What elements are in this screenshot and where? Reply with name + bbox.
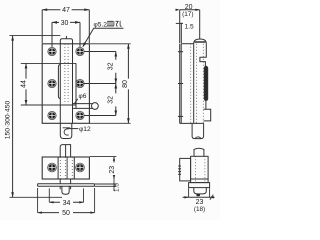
security stud pin horizontal [73, 104, 93, 109]
dim 30 ext right [79, 22, 81, 47]
knuckle dome cap [194, 39, 207, 44]
leaf socket piece [180, 158, 191, 181]
hidden shaft lines in block (dashed) [196, 156, 205, 182]
leader phi6 [75, 99, 78, 104]
arrows dim 80 [127, 44, 130, 49]
svg-text:47: 47 [62, 7, 70, 14]
arrows dim 34 [49, 201, 53, 203]
hidden pin left (dashed) [64, 157, 66, 179]
dim 47 ext right [88, 10, 90, 43]
dim 34 line [49, 201, 83, 203]
screw hole front top-left [48, 47, 56, 55]
dim 47 line [42, 9, 89, 11]
hidden barrel right (dashed) [71, 157, 73, 179]
right leaf wrap edge [75, 63, 77, 103]
oblique tick [210, 195, 213, 200]
arrow leader phi5.2 [83, 42, 87, 47]
svg-text:1.5: 1.5 [185, 23, 194, 30]
arrows dim 150 [11, 36, 14, 41]
dim 80 ext bottom [89, 122, 130, 124]
barrel below bar [60, 186, 70, 189]
hidden barrel left (dashed) [59, 157, 61, 179]
pin shaft [194, 148, 204, 156]
arrows dim 23 bottom view [113, 157, 115, 161]
leader phi12 [67, 128, 79, 130]
arrows dim 44 [25, 63, 28, 68]
stud collar [75, 104, 77, 109]
svg-text:44: 44 [20, 80, 27, 88]
svg-text:32: 32 [108, 96, 115, 104]
svg-text:150·300·450: 150·300·450 [4, 101, 11, 140]
stud ball end [92, 103, 99, 110]
knuckle barrel left edge [59, 44, 61, 124]
dim 20 line [180, 9, 200, 11]
pin top tick [65, 36, 67, 39]
dim 20 ext left / 1.5 ext [179, 10, 181, 43]
barrel bottom notch [195, 137, 201, 139]
arrows dim 30 [52, 21, 57, 24]
hidden leaf line (dashed) [190, 44, 192, 124]
screw hole front bot-left [48, 111, 56, 119]
dim 150 ext bottom [10, 196, 63, 198]
dim 50 ext right [94, 188, 96, 213]
svg-text:23: 23 [196, 199, 204, 206]
dim 23 line [113, 157, 115, 180]
dim 1.5 ext inner [180, 23, 182, 43]
other leaf thin bar [38, 184, 95, 186]
socket hatch ticks [178, 166, 181, 174]
wrap edge right [73, 157, 75, 179]
svg-text:(17): (17) [182, 11, 193, 18]
dim 80 ext top [89, 43, 130, 45]
screw hole A1 [0, 0, 1, 1]
svg-text:80: 80 [122, 80, 129, 88]
dim 30 ext left [51, 22, 53, 47]
slot left edge in plate [57, 157, 59, 179]
bottom view plate [42, 157, 89, 179]
dim 34 ext right [83, 188, 85, 202]
dim 30 line [52, 21, 80, 23]
hole tick row3 [178, 115, 183, 117]
barrel inner line above [65, 145, 67, 157]
dim 50 line [38, 212, 95, 214]
retaining ring detail [64, 129, 69, 135]
barrel above plate [60, 145, 70, 157]
svg-text:50: 50 [62, 210, 70, 217]
dim 80 line [127, 44, 129, 124]
dim 32 line [115, 52, 117, 116]
dim 50 ext left [37, 188, 39, 213]
knuckle bottom step [63, 127, 71, 129]
dim 20 ext right (center line) [199, 10, 201, 39]
arrows dim 32 [114, 52, 117, 57]
leader phi5.2 [83, 28, 124, 47]
dim 23p ext right [209, 188, 211, 197]
dim 44 ext top [21, 62, 76, 64]
dim 23 ext bottom arrowline [113, 179, 115, 191]
dim 23p ext left [188, 188, 190, 197]
barrel below plate [192, 123, 204, 138]
knuckle cap top [60, 39, 72, 44]
side top edge [181, 43, 194, 45]
leaf edge-on inner face [180, 44, 182, 124]
pin knob [194, 188, 207, 194]
hidden pin line right (dashed) [67, 44, 69, 103]
ticks dim 1.5 bottom view [113, 183, 116, 186]
knuckle barrel right edge [72, 44, 74, 124]
slot lower line [205, 101, 207, 110]
barrel left edge [193, 44, 195, 124]
dim 1.5b ext bottom [95, 185, 117, 187]
screw hole front mid-right [76, 79, 84, 87]
dome inner band [195, 41, 206, 43]
screw hole bottom-view right [76, 163, 85, 172]
pin body block [191, 156, 209, 182]
svg-text:20: 20 [185, 4, 193, 11]
pin flange [189, 183, 210, 188]
svg-text:34: 34 [63, 200, 71, 207]
arrows dim 23 pin [184, 196, 188, 198]
svg-text:φ12: φ12 [79, 126, 91, 133]
svg-text:φ6: φ6 [79, 93, 87, 100]
knuckle bottom below plate [60, 123, 72, 138]
barrel below plate to bar [60, 179, 70, 184]
dim 23 ext top [90, 156, 116, 158]
svg-text:(18): (18) [194, 206, 205, 213]
arrows dim 50 [38, 211, 42, 213]
hidden pin line left (dashed) [64, 44, 66, 103]
svg-text:30: 30 [61, 20, 69, 27]
screw hole front mid-left [48, 79, 56, 87]
leaf edge-on outer face [179, 44, 181, 124]
dim 150 ext top [10, 35, 61, 37]
screw hole bottom-view left [48, 163, 57, 172]
hole tick row1 [178, 51, 183, 53]
hidden pin hole right (dashed) [202, 44, 204, 124]
svg-text:32: 32 [108, 62, 115, 70]
dim 1.5 tick [176, 22, 183, 24]
block seam [191, 178, 209, 180]
svg-text:23: 23 [109, 166, 116, 174]
dim 34 ext left [48, 188, 50, 202]
side bottom edge [180, 122, 204, 124]
hole tick row2 [178, 83, 183, 85]
dim 47 ext left [41, 10, 43, 43]
lower bracket tab [204, 109, 211, 121]
dim 23p line [183, 196, 215, 198]
dim 32 ext rows [76, 52, 116, 116]
pin seam line [66, 157, 68, 179]
dim 44 line [25, 63, 27, 105]
hinge leaf plate front view [42, 44, 89, 124]
label sara-ana glyphs 皿孔 [107, 21, 122, 27]
dim 1.5b ext top [95, 183, 117, 185]
dim 44 ext bottom [21, 104, 76, 106]
svg-text:1.5: 1.5 [114, 183, 121, 192]
screw hole front top-right [76, 47, 84, 55]
dim 150-300-450 line [12, 36, 14, 198]
slot lance cut left of knuckle [58, 64, 60, 98]
arrows dim 20 [176, 9, 180, 11]
screw hole front bot-right [76, 111, 84, 119]
stud slot capsule [204, 66, 207, 100]
arrows dim 47 [42, 8, 47, 11]
knob tip dot [196, 194, 200, 196]
hidden pin hole left (dashed) [196, 44, 198, 124]
svg-text:φ5.2: φ5.2 [94, 22, 108, 29]
pin tip below [62, 186, 69, 194]
stud housing step [200, 44, 206, 67]
